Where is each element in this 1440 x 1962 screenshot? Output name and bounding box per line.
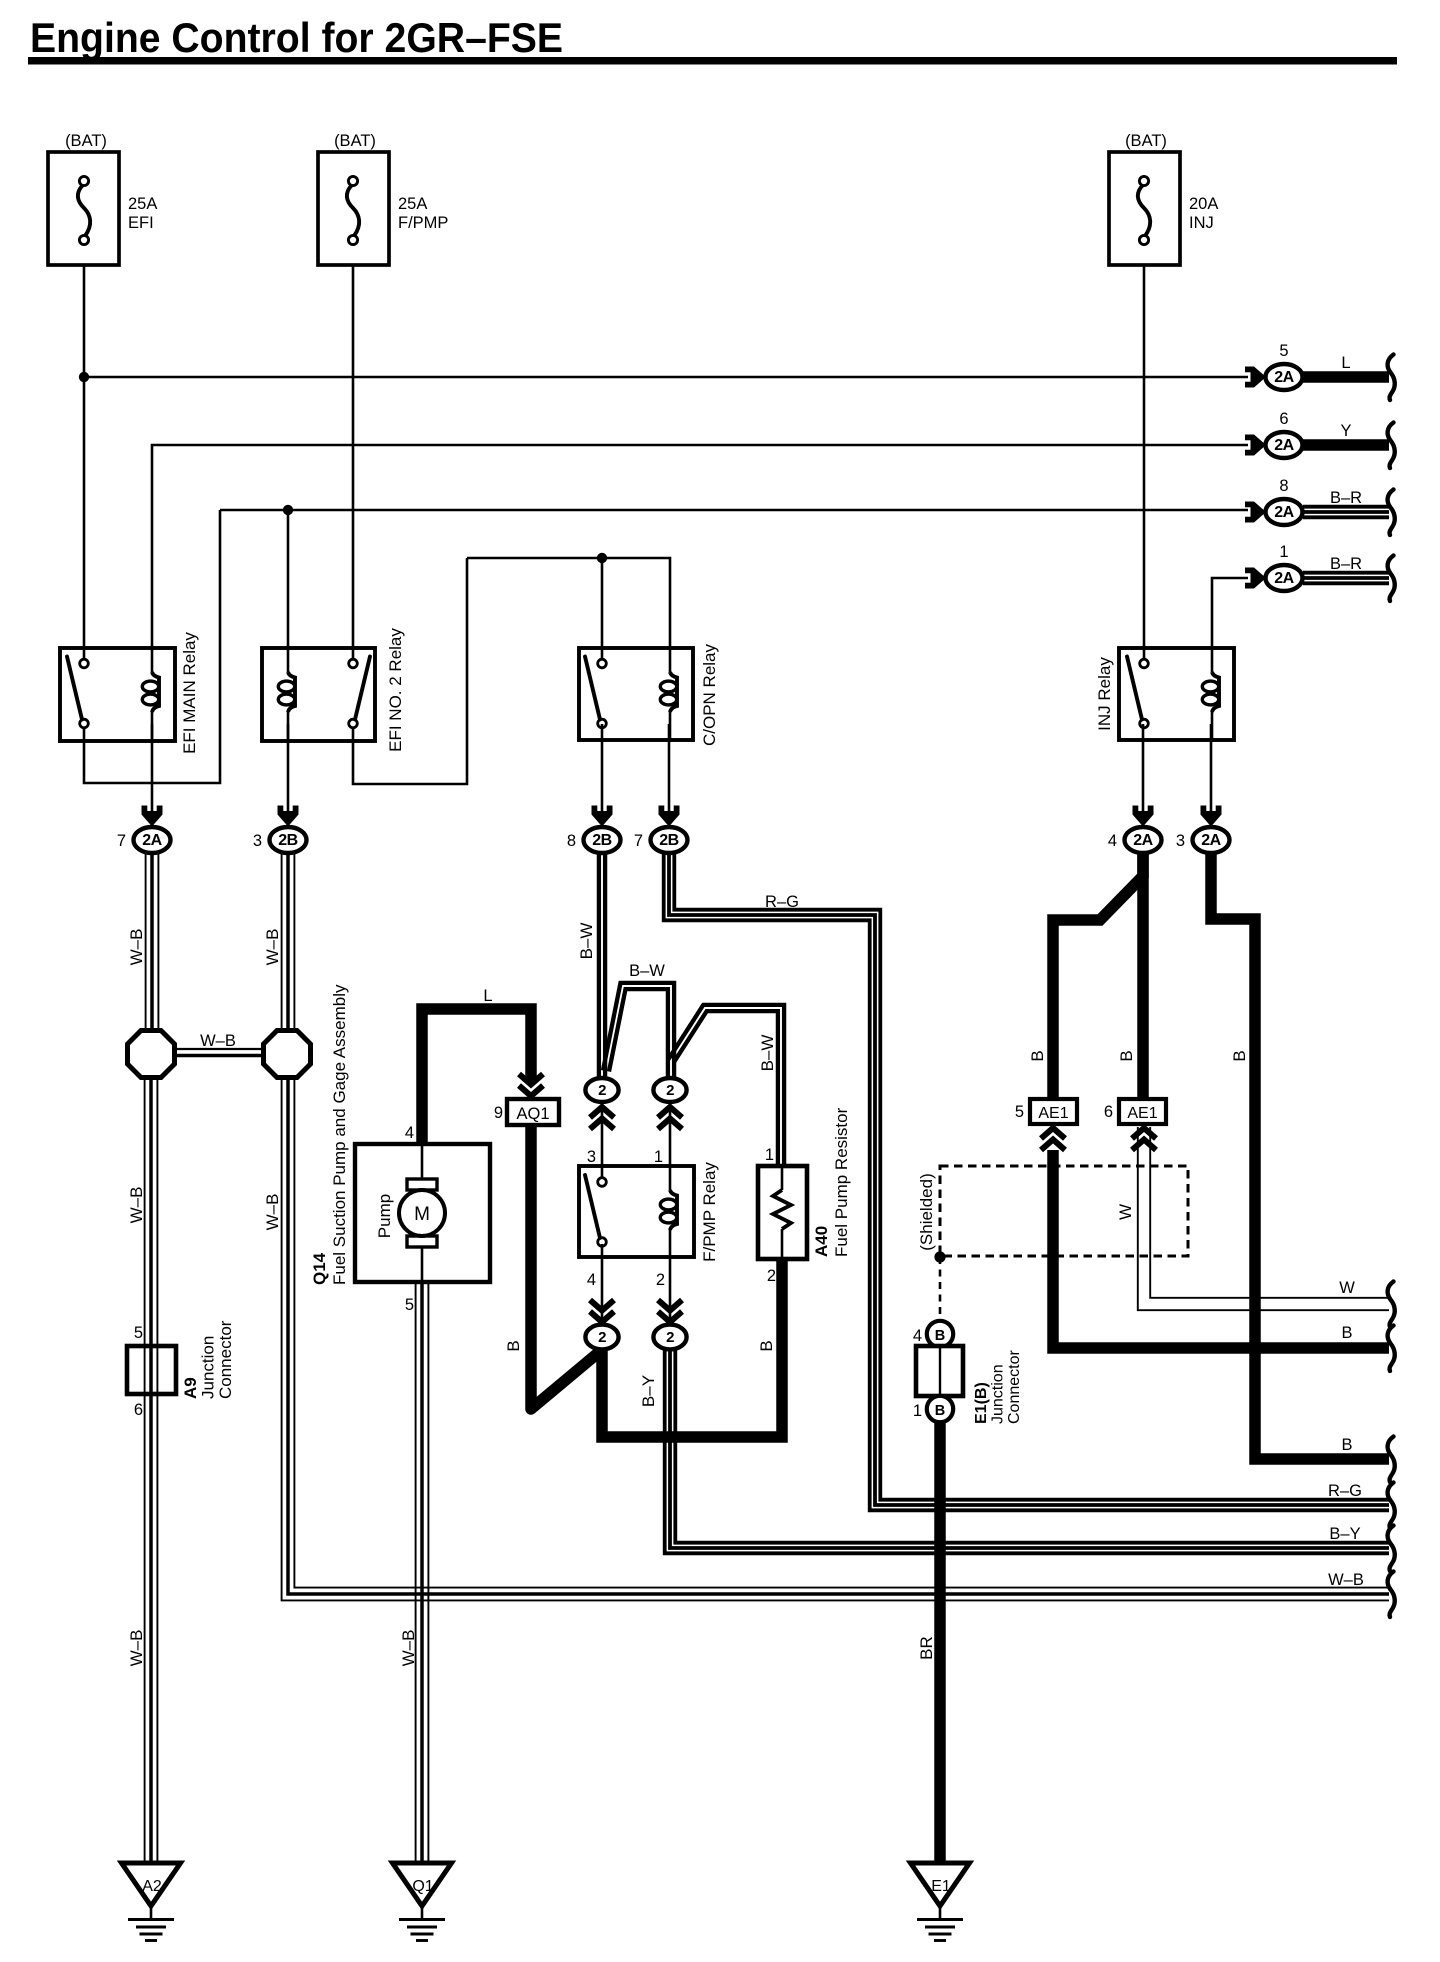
svg-text:EFI NO. 2 Relay: EFI NO. 2 Relay (386, 628, 405, 752)
splice octagon left (128, 1031, 175, 1078)
wire: relay output lead at x=288 (287, 724, 290, 813)
svg-text:B: B (1117, 1050, 1136, 1061)
pin 6 connector 2A with Y wire stub (1245, 435, 1266, 456)
wire B: F/PMP pin 4 connector to fuel pump resistor pin 2 (602, 1260, 782, 1437)
wire: +B line to ECM pin 5 (2A) (84, 376, 1248, 379)
wire B: AE1 pin 5 down to right-edge B stub (1053, 1150, 1389, 1348)
svg-text:B–Y: B–Y (1329, 1525, 1360, 1543)
wire W-B: pin 7 (2A) down to splice (145, 853, 147, 1031)
junction connector AE1 pin 5 (1030, 1099, 1077, 1124)
svg-text:F/PMP Relay: F/PMP Relay (700, 1162, 719, 1262)
svg-text:W–B: W–B (399, 1630, 418, 1667)
svg-text:W–B: W–B (127, 1630, 146, 1667)
svg-text:E1: E1 (931, 1878, 951, 1895)
svg-text:C/OPN Relay: C/OPN Relay (700, 643, 719, 746)
pin 1 connector 2A with B–R wire stub (1245, 568, 1266, 589)
svg-text:R–G: R–G (765, 893, 799, 911)
svg-text:B: B (1230, 1050, 1249, 1061)
wire B-Y: F/PMP relay pin 2 to right-edge stub (665, 1350, 1389, 1553)
wire W-B: splice to right-edge W-B stub (282, 1077, 1389, 1600)
ground Q1 (393, 1863, 452, 1906)
svg-text:AE1: AE1 (1127, 1105, 1157, 1122)
resistor A40 Fuel Pump Resistor (758, 1166, 807, 1259)
svg-text:2A: 2A (1201, 832, 1221, 849)
svg-text:6: 6 (1104, 1103, 1113, 1121)
svg-text:B–Y: B–Y (639, 1375, 658, 1407)
wire W-B: pump pin 5 to ground Q1 (415, 1282, 417, 1862)
wire: C/OPN relay switch feed (601, 558, 604, 661)
svg-text:2: 2 (666, 1329, 674, 1346)
svg-text:R–G: R–G (1328, 1482, 1362, 1500)
svg-text:B: B (935, 1328, 945, 1344)
shield dashed box (940, 1166, 1188, 1256)
wire: F/PMP relay pin 2 lead (669, 1257, 672, 1320)
wire: EFI MAIN relay switch output loop (84, 510, 220, 783)
wire: F/PMP relay pin 1 lead (669, 1104, 672, 1167)
wire L: fuel pump feed from F/PMP relay (422, 1009, 531, 1145)
svg-text:4: 4 (1108, 832, 1117, 850)
svg-text:B: B (935, 1403, 945, 1419)
svg-text:B–W: B–W (577, 923, 596, 960)
svg-text:4: 4 (587, 1271, 596, 1289)
svg-text:2A: 2A (1274, 369, 1294, 386)
svg-text:M: M (414, 1204, 430, 1225)
wire: F/PMP relay pin 4 lead (601, 1244, 604, 1320)
svg-text:2B: 2B (659, 832, 678, 849)
wire: C/OPN relay feed line (467, 558, 670, 648)
wire: INJ relay coil to ECM pin 1 (2A) (1212, 578, 1248, 648)
wire BR: E1(B) pin 1 to ground E1 (934, 1421, 946, 1862)
wire B-W: branch to fuel pump resistor pin 1 (674, 1011, 778, 1167)
wire W: AE1 pin 6 down to right-edge W stub (1138, 1127, 1389, 1310)
svg-text:INJ Relay: INJ Relay (1095, 657, 1114, 731)
svg-text:AQ1: AQ1 (516, 1105, 549, 1123)
svg-text:2B: 2B (278, 832, 297, 849)
svg-text:A2: A2 (142, 1878, 162, 1895)
svg-text:9: 9 (494, 1104, 503, 1122)
wire B: pin 4 (2A) branch to AE1 pin 5 (1053, 853, 1143, 1100)
svg-text:4: 4 (405, 1124, 414, 1142)
svg-text:2: 2 (666, 1082, 674, 1099)
relay F/PMP Relay (579, 1166, 694, 1257)
svg-text:EFI MAIN Relay: EFI MAIN Relay (180, 632, 199, 754)
pin 2 connector below F/PMP relay pin 4 (590, 1312, 614, 1323)
fuse 25A EFI (BAT) (48, 152, 119, 265)
svg-text:B: B (1341, 1324, 1352, 1342)
junction connector AE1 pin 6 (1119, 1099, 1166, 1124)
wire B: pin 4 (2A) straight to AE1 pin 6 (1137, 853, 1149, 1100)
svg-text:L: L (483, 987, 492, 1005)
svg-text:W–B: W–B (1328, 1571, 1364, 1589)
svg-text:5: 5 (134, 1324, 143, 1342)
svg-text:3: 3 (253, 832, 262, 850)
svg-text:3: 3 (587, 1148, 596, 1166)
pin 8 connector 2A with B–R wire stub (1245, 502, 1266, 523)
relay INJ Relay (1119, 648, 1234, 740)
pin 7 connector 2B (659, 806, 680, 827)
wire B: AQ1 down and diagonal to F/PMP relay pin 4 connector (531, 1125, 598, 1409)
pin 8 connector 2B (592, 806, 613, 827)
svg-text:2B: 2B (592, 832, 611, 849)
svg-text:2A: 2A (1274, 437, 1294, 454)
svg-text:1: 1 (1279, 543, 1288, 561)
svg-text:W–B: W–B (127, 929, 146, 966)
splice octagon right (264, 1031, 311, 1078)
wire: EFI fuse to EFI MAIN relay switch (83, 265, 86, 661)
pin 2 connector above F/PMP relay pin 3 (585, 1078, 618, 1102)
svg-text:B: B (504, 1340, 523, 1351)
svg-text:BR: BR (917, 1636, 936, 1660)
pump Q14 Fuel Suction Pump and Gage Assembly (355, 1144, 490, 1282)
svg-text:W: W (1116, 1204, 1135, 1220)
wire B-W: jog linking F/PMP relay pins 3 and 1 (609, 989, 668, 1077)
node: junction at C/OPN relay switch (597, 553, 607, 563)
svg-text:2: 2 (656, 1271, 665, 1289)
svg-text:8: 8 (1279, 477, 1288, 495)
svg-text:1: 1 (654, 1148, 663, 1166)
wire: F/PMP fuse to EFI NO.2 relay switch (352, 265, 355, 661)
svg-text:(BAT): (BAT) (65, 132, 107, 150)
svg-text:2: 2 (598, 1329, 606, 1346)
svg-text:AE1: AE1 (1038, 1105, 1068, 1122)
svg-text:B–W: B–W (629, 962, 665, 980)
svg-text:B–R: B–R (1330, 555, 1362, 573)
svg-text:5: 5 (1279, 342, 1288, 360)
wire: relay output lead at x=602 (601, 724, 604, 813)
svg-text:4: 4 (913, 1327, 922, 1345)
wire W-B: splice bridge (175, 1048, 263, 1050)
wire W-B: splice to A9 junction connector and ground A2 (144, 1077, 146, 1862)
svg-text:2A: 2A (1133, 832, 1153, 849)
svg-text:2A: 2A (1274, 504, 1294, 521)
svg-text:Pump: Pump (375, 1194, 394, 1238)
svg-text:5: 5 (405, 1296, 414, 1314)
svg-text:W–B: W–B (127, 1187, 146, 1224)
pin 3 connector 2B (278, 806, 299, 827)
svg-text:6: 6 (134, 1401, 143, 1419)
node: shield drain junction (934, 1251, 945, 1262)
svg-text:(BAT): (BAT) (1125, 132, 1167, 150)
svg-text:5: 5 (1015, 1103, 1024, 1121)
svg-text:B–R: B–R (1330, 489, 1362, 507)
svg-text:Q1: Q1 (412, 1878, 433, 1895)
svg-text:B: B (1341, 1436, 1352, 1454)
svg-text:(Shielded): (Shielded) (917, 1173, 936, 1251)
ground A2 (122, 1863, 181, 1906)
connector AQ1 pin 9 (519, 1086, 543, 1097)
svg-text:B: B (1028, 1050, 1047, 1061)
wire R-G: pin 7 (2B) across and down to right-edge stub (664, 853, 1389, 1510)
fuse 20A INJ (BAT) (1109, 152, 1180, 265)
svg-text:Engine Control for 2GR–FSE: Engine Control for 2GR–FSE (30, 14, 563, 61)
wire: relay output lead at x=1211 (1210, 724, 1213, 813)
svg-text:2A: 2A (1274, 570, 1294, 587)
svg-text:W–B: W–B (200, 1032, 236, 1050)
wire: EFI MAIN relay coil to ECM pin 6 (2A) (152, 445, 1248, 648)
svg-text:B–W: B–W (758, 1035, 777, 1072)
svg-text:INJ: INJ (1189, 214, 1214, 232)
svg-text:W–B: W–B (263, 929, 282, 966)
motor M inside pump (407, 1179, 437, 1190)
wire: EFI NO.2 relay coil feed (287, 510, 290, 648)
relay C/OPN Relay (579, 648, 693, 740)
svg-text:20A: 20A (1189, 195, 1218, 213)
svg-text:7: 7 (634, 832, 643, 850)
svg-text:1: 1 (765, 1146, 774, 1164)
wire: relay output lead at x=669 (668, 724, 671, 813)
wire B-W: pin 8 (2B) to F/PMP relay pin 3 connector (597, 853, 601, 1079)
svg-text:25A: 25A (128, 195, 157, 213)
svg-text:7: 7 (117, 832, 126, 850)
svg-text:W–B: W–B (263, 1194, 282, 1231)
svg-text:W: W (1339, 1279, 1355, 1297)
svg-text:2: 2 (767, 1267, 776, 1285)
relay EFI NO. 2 Relay (262, 648, 375, 741)
fuse 25A F/PMP (BAT) (318, 152, 389, 265)
junction connector A9 (127, 1346, 176, 1394)
svg-text:2A: 2A (142, 832, 162, 849)
ground E1 (911, 1863, 970, 1906)
wire: shield drain (dashed) (939, 1257, 942, 1320)
wire: relay output lead at x=152 (151, 724, 154, 813)
pin 2 connector below F/PMP relay pin 2 (658, 1312, 682, 1323)
svg-text:(BAT): (BAT) (334, 132, 376, 150)
svg-text:F/PMP: F/PMP (398, 214, 448, 232)
node: junction EFI fuse / line to pin 5 (79, 372, 89, 382)
svg-text:EFI: EFI (128, 214, 154, 232)
pin 2 connector above F/PMP relay pin 1 (653, 1078, 686, 1102)
svg-text:1: 1 (913, 1402, 922, 1420)
svg-text:B: B (757, 1340, 776, 1351)
svg-text:3: 3 (1176, 832, 1185, 850)
wire: F/PMP relay pin 3 lead (601, 1104, 604, 1180)
pin 5 connector 2A with L wire stub (1245, 367, 1266, 388)
node: junction at EFI NO.2 relay coil (283, 505, 293, 515)
pin 7 connector 2A (142, 806, 163, 827)
svg-text:Y: Y (1340, 422, 1351, 440)
wire: EFI NO.2 relay switch output loop (353, 558, 467, 784)
svg-text:L: L (1341, 354, 1350, 372)
junction connector E1(B) (927, 1321, 953, 1347)
wire W-B: pin 3 (2B) down to splice (281, 853, 283, 1031)
wire: relay output lead at x=1143 (1142, 724, 1145, 813)
wire: relay output bus to ECM pin 8 (2A) (220, 509, 1248, 512)
wire: INJ fuse to INJ relay switch (1143, 265, 1146, 661)
pin 3 connector 2A (1201, 806, 1222, 827)
svg-text:8: 8 (567, 832, 576, 850)
svg-text:6: 6 (1279, 410, 1288, 428)
svg-text:25A: 25A (398, 195, 427, 213)
wire B: pin 3 (2A) down right side to B stub (1211, 853, 1389, 1459)
relay EFI MAIN Relay (60, 648, 175, 741)
svg-text:2: 2 (598, 1082, 606, 1099)
pin 4 connector 2A (1133, 806, 1154, 827)
